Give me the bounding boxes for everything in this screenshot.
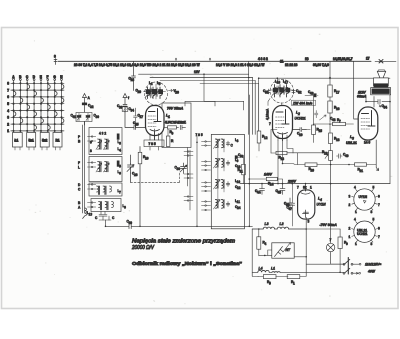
wire matrix rows: [11, 83, 64, 131]
svg-text:20000 Ω/V: 20000 Ω/V: [131, 245, 155, 251]
resistor R13 horizontal: [271, 152, 276, 154]
svg-text:41: 41: [73, 115, 77, 119]
wire right side down: [366, 95, 390, 184]
svg-text:L2: L2: [280, 222, 284, 226]
svg-text:220V: 220V: [287, 179, 297, 183]
wire bottom to rail: [105, 220, 107, 227]
wire left vertical x252.2: [251, 229, 253, 276]
choke L4 L1 wire y272.3: [252, 271, 258, 273]
resistor R20 horizontal on y164.5: [294, 164, 305, 166]
coil box Ln below matrix: [13, 133, 63, 151]
wire drops from bus right of tube: [249, 61, 259, 134]
svg-text:7: 7: [297, 186, 299, 190]
resistor V vertical: [257, 237, 261, 249]
band contacts row1: [88, 137, 96, 142]
svg-text:20: 20: [175, 90, 179, 94]
svg-text:7 8 5: 7 8 5: [196, 133, 203, 137]
svg-text:9: 9: [124, 205, 126, 209]
cap C49: [337, 154, 343, 158]
capacitor C17: [134, 108, 138, 128]
capacitor dark bar in box2: [117, 161, 120, 167]
svg-text:5x2: 5x2: [42, 139, 48, 143]
cap C40 series in rail: [106, 224, 253, 229]
IF coil group2: [214, 158, 241, 169]
svg-text:16: 16: [277, 81, 281, 85]
svg-text:4: 4: [7, 109, 9, 113]
svg-text:4: 4: [119, 148, 121, 152]
svg-text:1: 1: [293, 281, 295, 285]
variable cap C36: [181, 163, 187, 174]
resistor R9 vertical: [338, 237, 342, 249]
wire 12V heater rail: [139, 73, 249, 75]
cathode arrow: [376, 165, 379, 171]
IF box: [211, 134, 244, 228]
resistor R10: [139, 147, 141, 227]
svg-text:R1: R1: [56, 139, 60, 143]
svg-text:20: 20: [311, 168, 315, 172]
svg-text:Napięcia stałe zmierzone przyr: Napięcia stałe zmierzone przyrządem: [132, 239, 235, 245]
svg-text:21: 21: [360, 169, 364, 173]
wire left loop from R13: [271, 130, 277, 154]
svg-text:17: 17: [336, 90, 340, 94]
svg-text:UBL21: UBL21: [346, 141, 357, 145]
svg-text:7: 7: [339, 119, 341, 123]
wire to R11: [238, 157, 244, 164]
svg-text:70V 35mA: 70V 35mA: [167, 107, 184, 111]
capacitor C47: [290, 184, 295, 226]
svg-text:F: F: [47, 75, 49, 79]
contacts col1: [184, 152, 193, 156]
coil box 2: [89, 157, 122, 182]
svg-text:6: 6: [7, 95, 9, 99]
wire heater line right section: [259, 77, 390, 80]
speaker cone: [377, 71, 385, 78]
tube L3 cathode down: [375, 140, 377, 165]
svg-text:4: 4: [354, 218, 356, 222]
svg-text:5: 5: [373, 218, 375, 222]
svg-text:5: 5: [269, 281, 271, 285]
wire top bus: [58, 60, 371, 62]
svg-text:38: 38: [119, 105, 123, 109]
speaker magnet box: [374, 78, 389, 86]
svg-text:1: 1: [7, 129, 9, 133]
svg-text:5: 5: [7, 102, 9, 106]
osc coils: [148, 87, 150, 99]
svg-text:52: 52: [298, 90, 302, 94]
svg-text:8: 8: [90, 149, 92, 153]
electrolytic caps below rail: [260, 184, 265, 195]
svg-text:2: 2: [7, 122, 9, 126]
svg-text:16: 16: [336, 107, 340, 111]
svg-text:UY1N: UY1N: [317, 203, 327, 207]
coil pair in box1: [98, 139, 107, 149]
svg-text:7: 7: [269, 122, 271, 126]
capacitor C58 black: [235, 155, 238, 158]
svg-text:140V: 140V: [264, 173, 273, 177]
contacts col2 group2: [202, 162, 211, 171]
resistor R7b: [287, 275, 300, 279]
socket UY1N circle: [354, 189, 375, 210]
svg-text:40W: 40W: [367, 270, 376, 274]
wire right vertical x249.3: [248, 95, 250, 226]
svg-text:58: 58: [240, 154, 244, 158]
node bus end mark: [379, 60, 383, 64]
svg-text:11: 11: [280, 60, 284, 64]
svg-text:5x1: 5x1: [29, 139, 35, 143]
svg-text:7 8 5: 7 8 5: [149, 142, 156, 146]
resistor R12 vertical: [258, 78, 260, 131]
svg-text:4 8 3 2: 4 8 3 2: [258, 57, 268, 61]
text ZW 464 box: [292, 100, 316, 105]
wire A down: [84, 122, 86, 126]
svg-text:54: 54: [384, 105, 388, 109]
svg-text:14: 14: [270, 183, 274, 187]
svg-text:7: 7: [7, 88, 9, 92]
svg-text:Ł1: Ł1: [15, 139, 19, 143]
svg-text:L: L: [78, 166, 80, 170]
tube L3 grid wire left: [354, 61, 359, 119]
svg-text:49: 49: [345, 154, 349, 158]
svg-text:3: 3: [119, 141, 121, 145]
resistor R15 vertical: [313, 124, 315, 125]
svg-text:6: 6: [119, 171, 121, 175]
svg-text:8: 8: [371, 242, 373, 246]
svg-text:11: 11: [237, 200, 241, 204]
tube L1 electrodes: [149, 109, 162, 122]
svg-text:18: 18: [131, 78, 135, 82]
wire bus drop x330: [329, 61, 331, 85]
svg-text:8k: 8k: [303, 186, 307, 190]
svg-text:34: 34: [131, 108, 135, 112]
svg-text:10: 10: [145, 156, 149, 160]
osc can dashed circle: [145, 82, 168, 105]
svg-text:8: 8: [371, 210, 373, 214]
capacitor C32: [83, 103, 87, 112]
svg-text:6: 6: [378, 195, 380, 199]
svg-text:12 22 23: 12 22 23: [285, 63, 298, 67]
svg-text:36: 36: [177, 167, 181, 171]
caps below boxes: [99, 212, 109, 221]
coil box 3: [89, 183, 122, 196]
wire heater drop x204: [204, 74, 215, 101]
pin number box: [144, 140, 164, 147]
svg-text:24: 24: [237, 206, 241, 210]
contacts col2 group4: [202, 202, 211, 211]
wire grid cap C25 into tube: [125, 126, 145, 130]
svg-text:15: 15: [319, 129, 323, 133]
band contacts row3: [88, 185, 96, 190]
svg-text:2: 2: [349, 227, 351, 231]
tube L2 pins down: [278, 133, 287, 141]
wire across y124: [306, 124, 330, 130]
svg-text:20 28,6 2 11 12 16,9 12,5 1: 20 28,6 2 11 12 16,9 12,5 13,2 16 W: [148, 63, 200, 67]
svg-text:26: 26: [134, 173, 138, 177]
wire second rail: [150, 77, 253, 79]
cap C51 left: [267, 89, 270, 94]
antenna input 2: [123, 94, 127, 105]
svg-text:12: 12: [264, 136, 268, 140]
cap C54 across: [366, 99, 390, 103]
svg-text:UCH21: UCH21: [295, 117, 306, 121]
wire anode up to transformer: [373, 97, 375, 108]
band contacts row2: [88, 163, 96, 168]
IF coil group4: [214, 199, 241, 210]
antenna A arrow: [83, 94, 87, 104]
svg-text:F: F: [78, 161, 80, 165]
coil L13: [83, 208, 87, 219]
wire vertical pot down to lamp: [330, 160, 332, 243]
contacts col2 group1: [202, 142, 211, 146]
resistor R11 vertical: [242, 164, 246, 175]
svg-text:UCH21: UCH21: [357, 232, 368, 236]
svg-text:3: 3: [308, 220, 310, 224]
svg-text:7: 7: [378, 235, 380, 239]
svg-text:6: 6: [378, 227, 380, 231]
IF coil group3: [214, 179, 241, 190]
svg-text:7: 7: [378, 203, 380, 207]
capacitor C48 with arrow: [315, 111, 318, 118]
wire can left down: [268, 99, 270, 106]
capacitor C38 with box: [123, 105, 127, 113]
svg-text:110/125V=: 110/125V=: [365, 263, 381, 267]
svg-text:9: 9: [346, 242, 348, 246]
svg-text:9: 9: [172, 131, 174, 135]
wire -70V rail: [306, 228, 340, 230]
svg-text:6: 6: [90, 141, 92, 145]
resistor R17 vertical: [328, 85, 332, 97]
band contacts row4: [88, 203, 96, 208]
choke L3 L2 wire y229: [252, 228, 263, 230]
svg-text:12V: 12V: [194, 70, 201, 74]
svg-text:8: 8: [7, 82, 9, 86]
wire from box1 down: [130, 155, 132, 164]
resistor R5: [263, 275, 276, 279]
coil box 4: [91, 199, 121, 212]
IF can2 dashed circle: [270, 79, 294, 103]
switch matrix keyboard: [11, 79, 64, 132]
mains switch: [306, 263, 343, 265]
node matrix contact arcs: [14, 85, 64, 130]
svg-text:1: 1: [168, 115, 170, 119]
wire rail 140V y179: [249, 178, 277, 180]
variable cap C26: [128, 164, 134, 174]
svg-text:32: 32: [90, 105, 94, 109]
output transformer dark box: [371, 88, 391, 95]
resistor R18a vertical: [328, 101, 332, 113]
svg-text:1: 1: [355, 242, 357, 246]
socket UBL21/UCH21 circle: [354, 221, 375, 242]
svg-text:30: 30: [96, 115, 100, 119]
contacts col2 group3: [202, 183, 211, 192]
wire double vertical: [82, 122, 84, 214]
svg-text:L3: L3: [265, 222, 269, 226]
svg-text:7: 7: [330, 238, 332, 242]
svg-text:28 30 7,2 8,4 7,5 10,3 0,75: 28 30 7,2 8,4 7,5 10,3 0,75 12,2 12,6 12…: [74, 63, 150, 67]
grid cap C19 right of L2: [293, 128, 307, 132]
wire C18 drop from bus: [132, 61, 136, 90]
svg-text:38,39 7,8,9: 38,39 7,8,9: [313, 63, 329, 67]
trimmer C41 C30 pair: [76, 113, 92, 122]
wire L2 top to can: [281, 103, 283, 106]
svg-text:3: 3: [352, 136, 354, 140]
resistor R7 horizontal: [330, 123, 354, 125]
resistor vertical in box: [167, 129, 169, 136]
wire across above IF box: [185, 101, 244, 110]
capacitor dark bar in box1: [117, 134, 120, 140]
svg-text:14 6: 14 6: [364, 141, 370, 145]
svg-text:UCH21: UCH21: [165, 121, 186, 125]
svg-text:3: 3: [349, 195, 351, 199]
svg-text:4 3 2: 4 3 2: [99, 132, 106, 136]
wire C26 down to rail: [130, 173, 132, 182]
svg-text:51: 51: [265, 90, 269, 94]
svg-text:11: 11: [240, 169, 244, 173]
cap C52 right: [292, 89, 295, 94]
anode RC inside box: [164, 125, 186, 129]
svg-text:L1: L1: [271, 267, 275, 271]
svg-text:2: 2: [297, 112, 300, 116]
wire IF box internal spine: [218, 148, 224, 200]
wire from L2 pins to rails: [278, 141, 293, 184]
pilot lamp: [326, 243, 334, 251]
svg-text:1: 1: [349, 235, 351, 239]
svg-text:9: 9: [237, 159, 239, 163]
tube L2 envelope: [273, 106, 293, 139]
svg-text:E: E: [40, 75, 42, 79]
svg-text:4: 4: [265, 242, 267, 246]
node matrix top circles: [13, 79, 63, 81]
svg-text:13: 13: [89, 212, 93, 216]
wire L4 anode/cathode: [305, 184, 308, 276]
svg-text:-70V 60mA: -70V 60mA: [320, 223, 338, 227]
svg-text:5: 5: [159, 82, 161, 86]
svg-text:60mA: 60mA: [357, 94, 367, 98]
svg-text:UY1N: UY1N: [359, 195, 368, 199]
svg-text:14,15,20,21,7: 14,15,20,21,7: [333, 57, 353, 61]
svg-text:1: 1: [355, 210, 357, 214]
svg-text:18: 18: [336, 138, 340, 142]
svg-text:22: 22: [237, 186, 241, 190]
IF coil group1: [214, 138, 239, 149]
wire tube pins down: [150, 147, 159, 151]
svg-text:17: 17: [366, 56, 370, 60]
node matrix junction dots: [12, 82, 62, 132]
svg-text:20: 20: [138, 90, 142, 94]
resistor R21 horizontal: [348, 164, 350, 166]
svg-text:40: 40: [129, 221, 133, 225]
svg-text:L4: L4: [259, 267, 263, 271]
cap C53: [305, 95, 318, 97]
wire x187-197 verticals: [187, 135, 197, 226]
svg-text:48: 48: [332, 118, 336, 122]
svg-text:3: 3: [7, 116, 9, 120]
svg-text:Odbiornik radiowy „Nokturn” i: Odbiornik radiowy „Nokturn” i „Sonatina”: [132, 261, 242, 266]
antenna terminal: [54, 59, 57, 65]
svg-text:7: 7: [119, 190, 121, 194]
svg-text:48: 48: [310, 92, 314, 96]
svg-text:1: 1: [310, 186, 312, 190]
svg-text:47: 47: [289, 207, 293, 211]
svg-text:8: 8: [54, 55, 56, 59]
svg-text:14,6 V 20 28,8 2 11 6 16: 14,6 V 20 28,8 2 11 6 16,9 13,2 W: [216, 63, 264, 67]
shield box around label: [162, 103, 191, 148]
pot R19 with arrow: [329, 151, 333, 161]
dashed gang line: [131, 172, 180, 182]
tube L1 envelope: [146, 106, 165, 136]
svg-text:4: 4: [319, 198, 322, 202]
svg-text:4,10mA: 4,10mA: [266, 108, 270, 120]
wire bottom connections: [339, 271, 341, 273]
svg-text:44: 44: [257, 190, 261, 194]
svg-text:25: 25: [135, 122, 139, 126]
tube L3 envelope: [358, 107, 378, 140]
wire B+ rail y183.6: [240, 183, 390, 185]
IF can2 coils: [275, 85, 277, 98]
tube L4 UY1N: [298, 190, 315, 219]
svg-text:17: 17: [140, 115, 144, 119]
svg-text:19: 19: [299, 133, 303, 137]
svg-text:17: 17: [285, 81, 289, 85]
wire matrix verticals: [14, 80, 62, 133]
coil box 1: [89, 128, 122, 155]
field coil box: [272, 243, 294, 258]
resistor R18 vertical: [329, 124, 331, 133]
svg-text:ZW 464 kc/s: ZW 464 kc/s: [292, 101, 313, 105]
svg-text:19: 19: [324, 151, 328, 155]
svg-text:4: 4: [151, 82, 153, 86]
svg-text:45: 45: [278, 190, 282, 194]
svg-text:2: 2: [349, 203, 351, 207]
svg-text:5: 5: [373, 186, 375, 190]
svg-text:8: 8: [237, 139, 239, 143]
svg-text:4: 4: [354, 186, 356, 190]
tube L1 pins: [150, 129, 159, 140]
